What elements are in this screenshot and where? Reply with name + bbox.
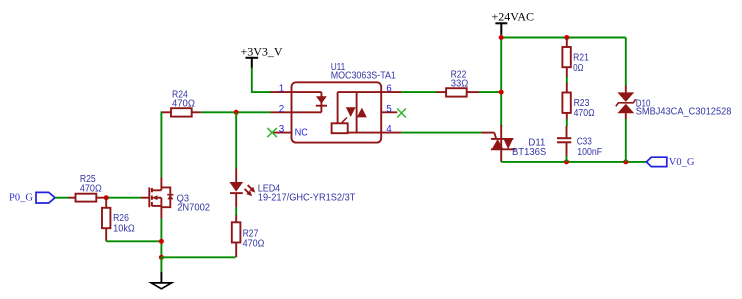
wire C33 to bottom rail [566,156,568,162]
diode D10 (TVS SMBJ43CA) [616,86,732,120]
no connect X pin 3 [267,128,277,137]
wire bottom rail [501,161,647,163]
node junction C33/bottom rail [564,159,569,164]
transistor D11 (triac BT136S) [482,125,547,162]
wire D10 to bottom rail [625,119,627,162]
wire R22 to triac column [479,91,501,93]
svg-text:MOC3063S-TA1: MOC3063S-TA1 [331,71,397,82]
resistor R23 [562,83,594,120]
node junction R25/R26 [104,195,109,200]
wire R27 to ground rail [161,256,235,258]
resistor R24 [162,90,201,117]
wire R25 to Q3 gate [105,197,142,199]
svg-text:2: 2 [279,104,285,115]
resistor R22 [436,69,479,96]
wire +3V3_V to U11 pin 1 [252,68,271,93]
port P0_G [9,192,55,203]
wire Q3 drain up to R24 [161,112,163,177]
wire R21 to R23 [566,77,568,83]
pin 3 [271,124,292,135]
svg-text:SMBJ43CA_C3012528: SMBJ43CA_C3012528 [636,107,732,118]
svg-text:2N7002: 2N7002 [177,202,210,213]
svg-text:V0_G: V0_G [669,157,695,168]
transistor Q3 [141,178,210,219]
pin 1 [271,84,292,95]
node junction source/R26 [159,239,164,244]
svg-text:3: 3 [279,124,285,135]
svg-text:19-217/GHC-YR1S2/3T: 19-217/GHC-YR1S2/3T [258,192,356,203]
svg-text:BT136S: BT136S [512,147,547,158]
svg-text:470Ω: 470Ω [574,108,595,119]
svg-text:33Ω: 33Ω [451,78,469,89]
resistor R25 [69,174,106,201]
pin 6 [381,84,401,95]
svg-text:0Ω: 0Ω [573,63,583,74]
power symbol +3V3_V [241,45,283,69]
pin 4 [381,124,401,135]
svg-text:1: 1 [279,84,285,95]
svg-text:6: 6 [386,84,392,95]
svg-text:4: 4 [386,124,392,135]
svg-text:P0_G: P0_G [9,192,33,203]
wire +24VAC vertical to D11 [500,35,502,128]
resistor R26 [102,198,135,242]
wire LED4 to R27 [235,207,237,216]
pin 2 [271,104,292,115]
svg-text:470Ω: 470Ω [80,184,102,195]
svg-text:100nF: 100nF [577,147,602,158]
svg-text:5: 5 [386,104,392,115]
op-amp U11 (optocoupler MOC3063S-TA1) [292,62,397,142]
wire +24VAC top rail [501,37,626,39]
wire R23 to C33 [566,119,568,127]
svg-text:470Ω: 470Ω [172,99,195,110]
node junction R24/LED4 [234,110,239,115]
resistor R27 [232,216,265,258]
node junction top rail at triac column [499,35,504,40]
svg-text:10kΩ: 10kΩ [113,223,135,234]
svg-text:470Ω: 470Ω [243,239,265,250]
node junction top rail at R21 [564,35,569,40]
node junction R22/D11 [499,90,504,95]
wire pin 4 to D11 gate [401,132,482,134]
wire R26 to source node [106,240,161,242]
node junction D10/bottom rail [623,159,628,164]
diode LED4 [229,169,355,208]
resistor R21 [562,38,589,78]
wire LED4 anode [235,112,237,168]
svg-text:+3V3_V: +3V3_V [241,45,283,59]
node junction ground net [159,255,164,260]
wire R24 to U11 pin 2 [201,111,271,113]
port V0_G [646,157,694,168]
svg-text:+24VAC: +24VAC [492,9,535,23]
capacitor C33 [557,126,602,158]
wire P0_G to R25 [55,197,69,199]
svg-text:C33: C33 [577,136,593,147]
ground [151,257,171,289]
pin 5 [381,104,397,115]
no connect X pin 5 [397,109,406,118]
wire pin 6 to R22 [401,91,437,93]
wire top rail to D10 [625,38,627,87]
power symbol +24VAC [492,9,535,34]
svg-text:NC: NC [295,128,308,139]
wire Q3 source down [160,219,162,258]
